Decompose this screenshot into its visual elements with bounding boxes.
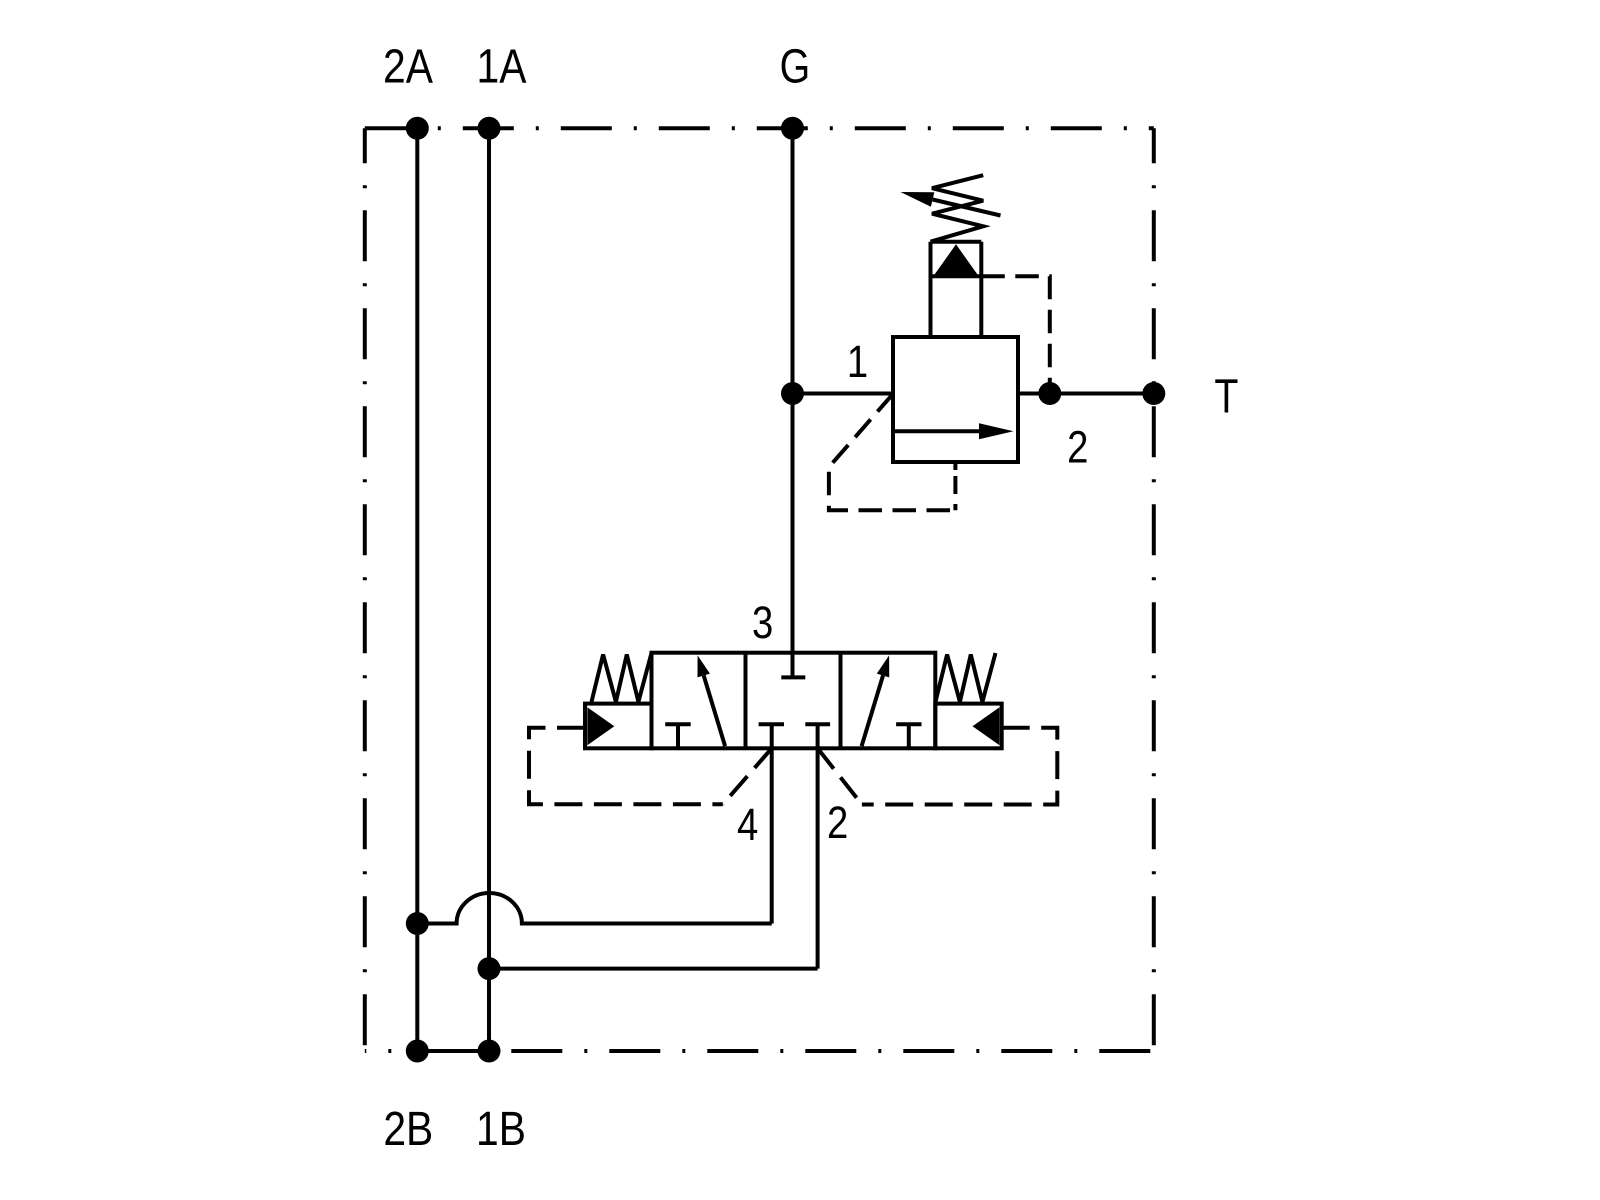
svg-text:2: 2 <box>1067 421 1088 472</box>
svg-text:1: 1 <box>847 336 868 387</box>
svg-text:1A: 1A <box>477 40 527 93</box>
svg-text:2B: 2B <box>383 1103 433 1156</box>
svg-text:G: G <box>780 40 811 94</box>
svg-text:T: T <box>1214 370 1238 424</box>
svg-text:4: 4 <box>737 799 758 850</box>
svg-text:3: 3 <box>752 597 773 648</box>
svg-text:2A: 2A <box>383 40 433 93</box>
svg-text:1B: 1B <box>476 1103 526 1156</box>
svg-text:2: 2 <box>827 797 848 848</box>
